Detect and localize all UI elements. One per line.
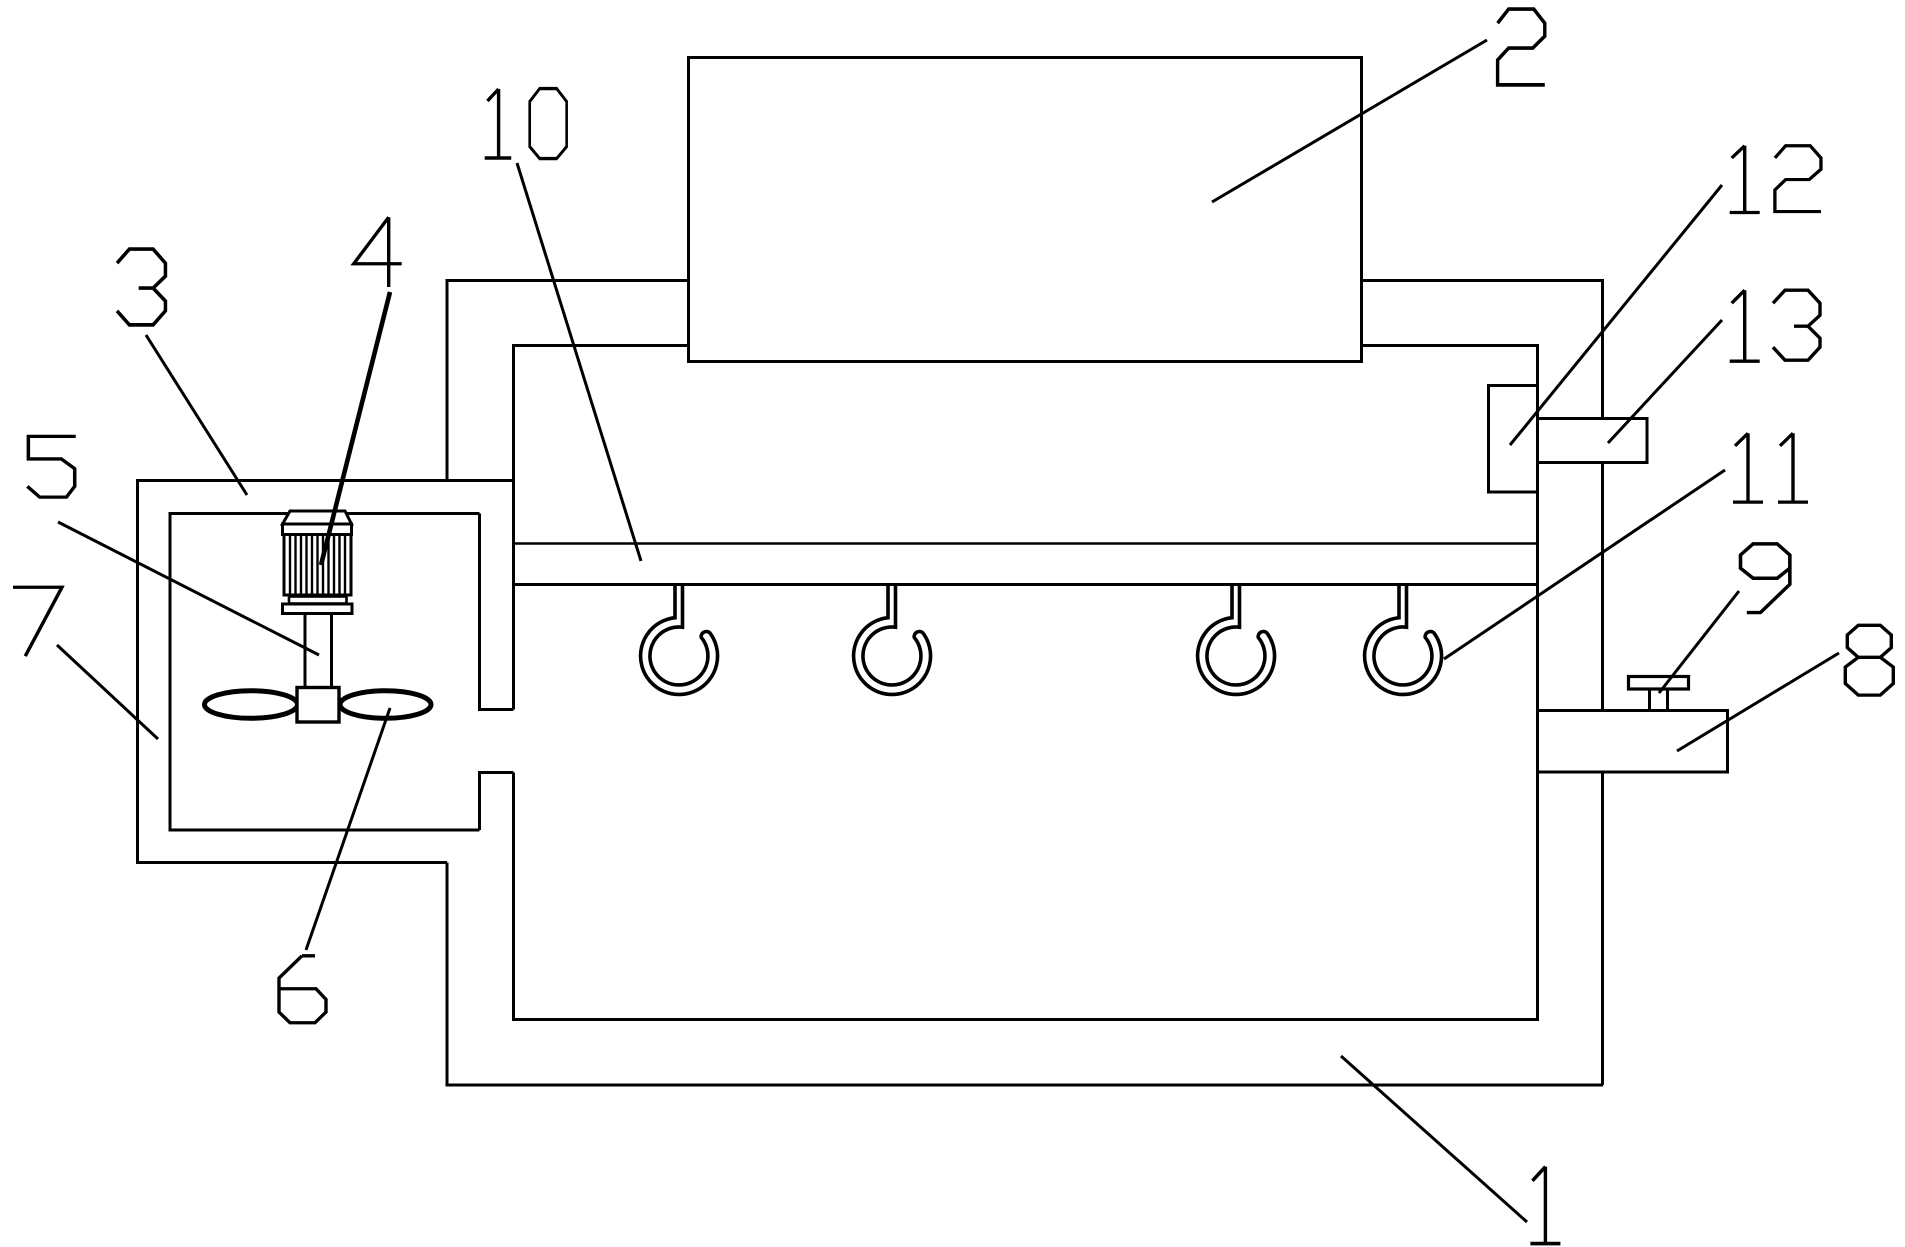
motor 4 flange — [283, 604, 353, 614]
label 10 — [485, 89, 512, 158]
leader line 9 — [1659, 591, 1739, 693]
hook 11 a — [641, 585, 718, 695]
motor 4 lower band — [289, 597, 347, 604]
hook 11 d — [1365, 585, 1442, 695]
leader line 6 — [306, 708, 390, 950]
label 3 — [117, 249, 165, 325]
leader line 1 — [1341, 1056, 1527, 1222]
label 6 — [279, 956, 326, 1023]
leader line 7 — [57, 645, 158, 739]
drain pipe 8 — [1538, 711, 1728, 773]
fan blade right 6 — [340, 691, 431, 719]
leader line 12 — [1510, 185, 1722, 445]
leader line 10 — [517, 163, 641, 561]
valve 9 stem — [1650, 689, 1668, 711]
bracket housing 3 outer — [138, 481, 514, 863]
label 7 — [13, 587, 62, 656]
drying chamber inner box — [514, 346, 1538, 1020]
duct wall right verticals with opening — [480, 514, 514, 831]
label 11 — [1733, 433, 1763, 502]
valve 9 handle — [1629, 677, 1689, 690]
shaft 5 — [305, 614, 332, 688]
tank 2 — [689, 58, 1362, 362]
leader line 8 — [1677, 653, 1839, 751]
fan blade left 6 — [205, 691, 298, 719]
motor 4 body — [284, 535, 351, 596]
bracket housing 7 inner — [170, 514, 480, 831]
leader line 5 — [58, 522, 319, 655]
outlet box 13 — [1538, 419, 1648, 463]
label 5 — [27, 436, 75, 497]
hook 11 c — [1198, 585, 1275, 695]
label 9 — [1741, 544, 1790, 613]
label 1 — [1530, 1167, 1560, 1244]
leader line 2 — [1212, 40, 1487, 202]
label 4 — [354, 217, 402, 287]
sensor box 12 — [1489, 386, 1538, 493]
leader line 3 — [146, 335, 247, 495]
hook 11 b — [854, 585, 931, 695]
conveyor rail 10 — [514, 542, 1538, 545]
label 12 — [1730, 146, 1760, 213]
leader line 11 — [1444, 470, 1725, 659]
motor 4 cap — [283, 511, 352, 524]
motor 4 stripes — [290, 536, 345, 594]
label 13 — [1730, 290, 1760, 361]
fan hub 6 — [297, 688, 339, 723]
leader line 4 — [321, 292, 390, 565]
label 8 — [1845, 625, 1893, 695]
motor 4 band — [283, 524, 352, 535]
label 2 — [1498, 9, 1545, 85]
outer housing frame 1 — [447, 281, 1603, 1086]
leader line 13 — [1608, 320, 1722, 443]
